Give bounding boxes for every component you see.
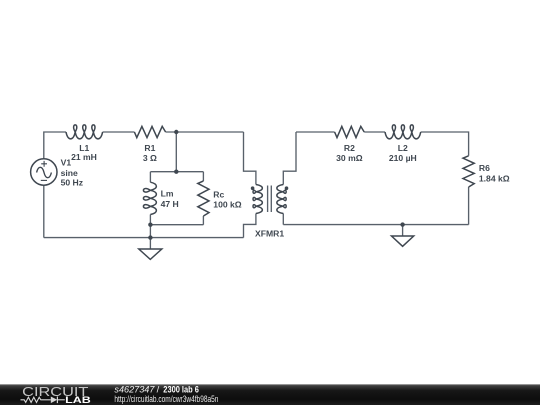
- svg-text:1.84 kΩ: 1.84 kΩ: [479, 173, 510, 183]
- svg-text:L2: L2: [398, 143, 408, 153]
- svg-text:R6: R6: [479, 163, 490, 173]
- svg-text:s4627347: s4627347: [114, 385, 155, 395]
- svg-text:R1: R1: [144, 143, 155, 153]
- svg-text:2300 lab 6: 2300 lab 6: [163, 385, 199, 395]
- svg-text:XFMR1: XFMR1: [255, 229, 284, 239]
- svg-text:30 mΩ: 30 mΩ: [336, 153, 363, 163]
- svg-text:210 µH: 210 µH: [389, 153, 417, 163]
- svg-text:http://circuitlab.com/cwr3w4fb: http://circuitlab.com/cwr3w4fb98a5n: [114, 394, 218, 404]
- svg-text:47 H: 47 H: [161, 199, 179, 209]
- svg-text:Lm: Lm: [161, 189, 174, 199]
- svg-text:LAB: LAB: [65, 395, 91, 405]
- svg-text:V1: V1: [61, 158, 72, 168]
- svg-text:21 mH: 21 mH: [71, 152, 97, 162]
- svg-text:/: /: [157, 385, 160, 395]
- svg-text:R2: R2: [344, 143, 355, 153]
- svg-text:50 Hz: 50 Hz: [61, 178, 83, 188]
- svg-text:Rc: Rc: [213, 189, 224, 199]
- svg-text:100 kΩ: 100 kΩ: [213, 200, 242, 210]
- svg-text:3 Ω: 3 Ω: [143, 153, 157, 163]
- svg-text:sine: sine: [61, 168, 78, 178]
